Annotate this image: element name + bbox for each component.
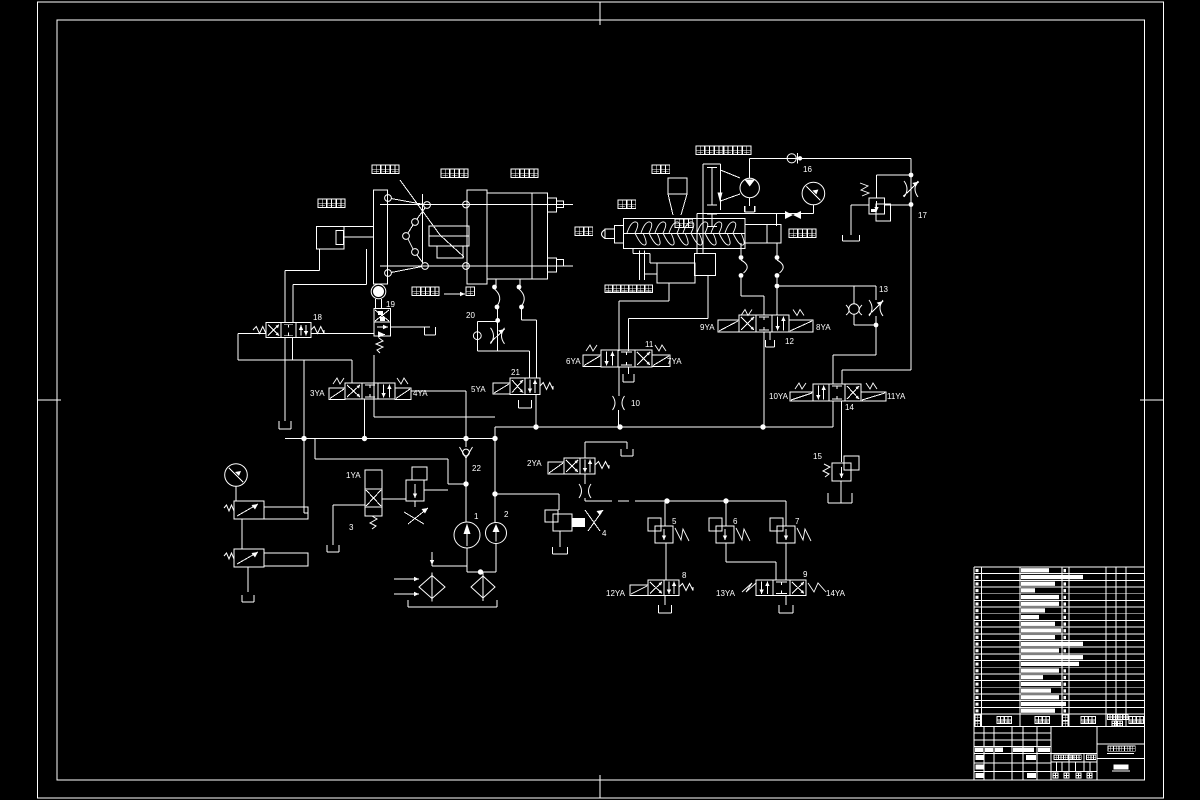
svg-text:19: 19 (386, 300, 395, 309)
svg-text:7YA: 7YA (667, 357, 682, 366)
svg-text:7: 7 (795, 517, 800, 526)
svg-text:10: 10 (631, 399, 640, 408)
svg-text:5YA: 5YA (471, 385, 486, 394)
svg-text:2: 2 (504, 510, 509, 519)
svg-text:5: 5 (672, 517, 677, 526)
svg-text:12YA: 12YA (606, 589, 626, 598)
svg-text:3: 3 (349, 523, 354, 532)
svg-text:13: 13 (879, 285, 888, 294)
svg-text:9YA: 9YA (700, 323, 715, 332)
svg-text:11: 11 (645, 340, 654, 349)
svg-text:21: 21 (511, 368, 520, 377)
svg-text:12: 12 (785, 337, 794, 346)
svg-text:9: 9 (803, 570, 808, 579)
svg-text:3YA: 3YA (310, 389, 325, 398)
svg-text:8YA: 8YA (816, 323, 831, 332)
svg-text:13YA: 13YA (716, 589, 736, 598)
svg-text:6YA: 6YA (566, 357, 581, 366)
svg-text:1YA: 1YA (346, 471, 361, 480)
svg-text:8: 8 (682, 571, 687, 580)
svg-text:17: 17 (918, 211, 927, 220)
svg-text:4: 4 (602, 529, 607, 538)
svg-text:15: 15 (813, 452, 822, 461)
svg-text:22: 22 (472, 464, 481, 473)
svg-text:16: 16 (803, 165, 812, 174)
svg-text:20: 20 (466, 311, 475, 320)
svg-text:11YA: 11YA (887, 392, 906, 401)
svg-text:18: 18 (313, 313, 322, 322)
svg-text:4YA: 4YA (413, 389, 428, 398)
svg-text:2YA: 2YA (527, 459, 542, 468)
svg-text:1: 1 (474, 512, 479, 521)
svg-text:6: 6 (733, 517, 738, 526)
svg-text:10YA: 10YA (769, 392, 789, 401)
svg-text:14: 14 (845, 403, 854, 412)
svg-text:14YA: 14YA (826, 589, 846, 598)
